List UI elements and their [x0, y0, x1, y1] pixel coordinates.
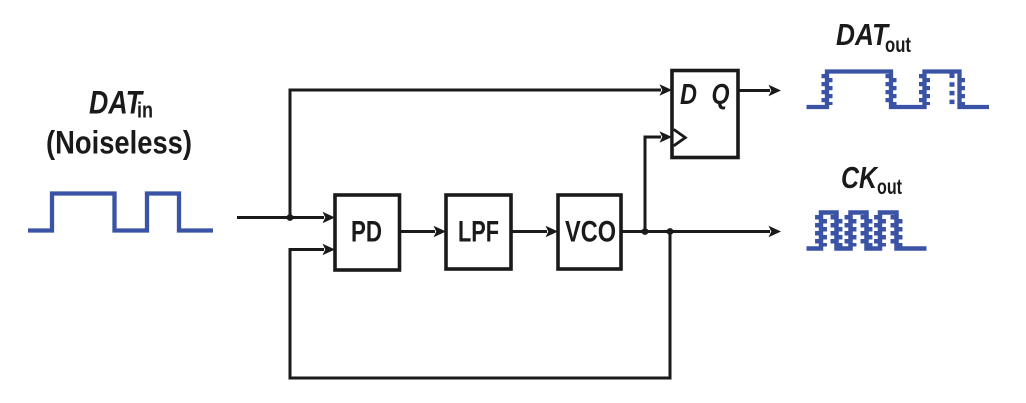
block VCO — [558, 195, 621, 269]
svg-text:(Noiseless): (Noiseless) — [46, 125, 192, 161]
waveform DATout — [807, 72, 990, 108]
svg-text:out: out — [885, 34, 911, 57]
wire LPF to VCO — [511, 226, 558, 237]
node DATout label — [836, 17, 911, 57]
block LPF — [446, 195, 511, 269]
block PD — [335, 195, 400, 270]
wire vertical up from junction — [289, 90, 292, 218]
svg-text:CK: CK — [841, 160, 879, 195]
node DATin label — [46, 85, 192, 161]
wire dotted potential edge — [950, 74, 955, 105]
svg-text:LPF: LPF — [458, 216, 499, 249]
wire clock to flip-flop — [645, 131, 672, 231]
node junction input — [287, 214, 294, 221]
svg-text:out: out — [877, 176, 902, 199]
waveform DATin — [28, 194, 213, 231]
svg-text:VCO: VCO — [565, 216, 616, 249]
node junction clock branch — [642, 228, 649, 235]
svg-text:PD: PD — [351, 216, 382, 249]
wire feedback to PD lower input — [290, 232, 670, 379]
wire input line — [237, 212, 335, 223]
svg-text:Q: Q — [712, 79, 730, 111]
wire top to D input — [289, 84, 673, 95]
wire Q output — [738, 85, 781, 96]
wire VCO output to CKout arrow — [621, 226, 781, 237]
svg-text:D: D — [680, 79, 697, 111]
svg-text:DAT: DAT — [89, 85, 144, 121]
svg-text:in: in — [137, 98, 153, 123]
svg-text:DAT: DAT — [836, 17, 891, 52]
flip-flop U1 — [672, 71, 738, 158]
node junction feedback branch — [667, 228, 674, 235]
wire PD to LPF — [400, 226, 447, 237]
waveform CKout — [807, 213, 927, 249]
node CKout label — [841, 160, 902, 199]
